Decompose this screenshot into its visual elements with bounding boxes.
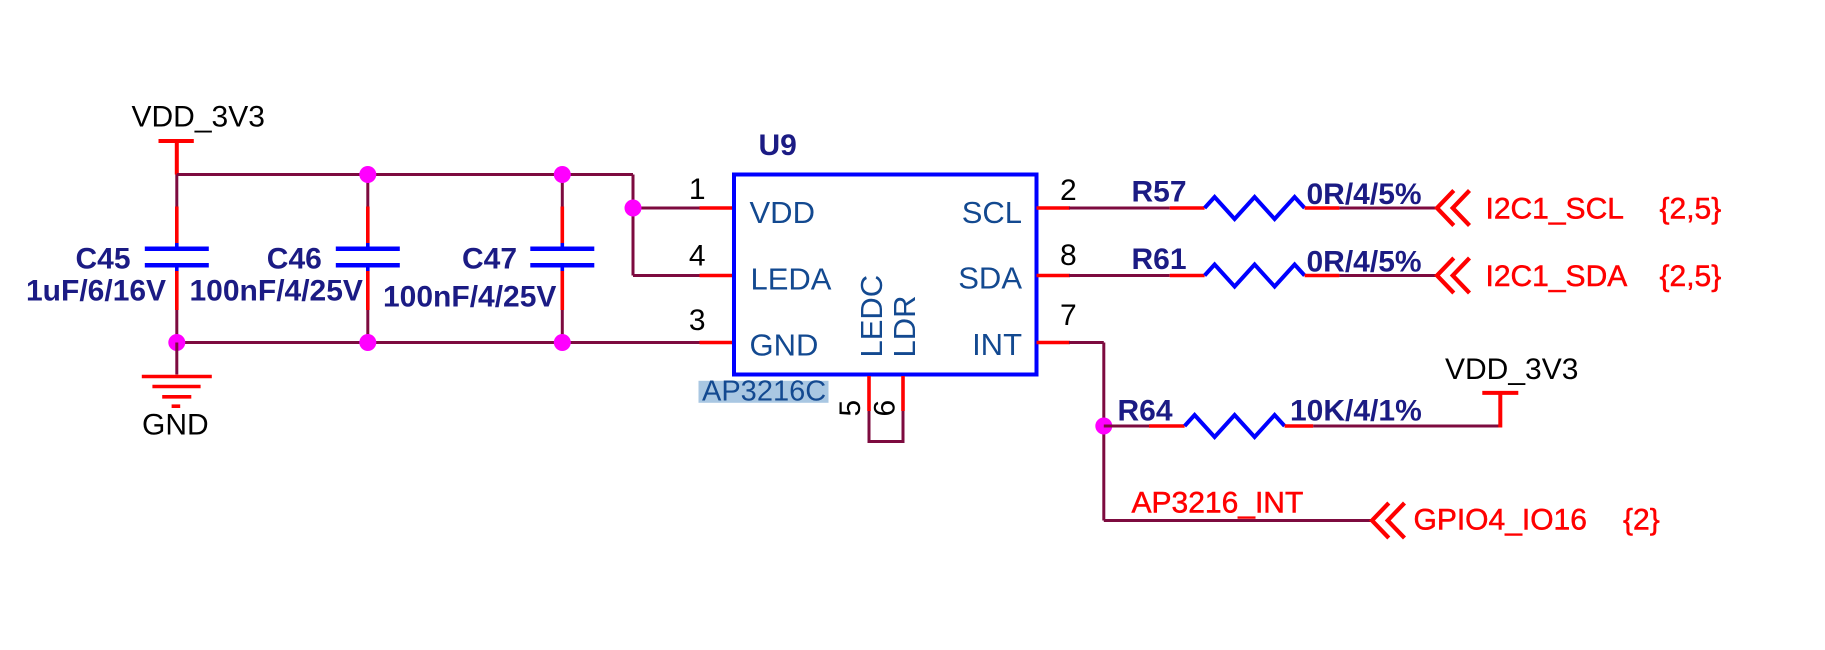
capacitor C47 [530, 175, 594, 343]
svg-text:{2,5}: {2,5} [1660, 260, 1722, 293]
wire: vertical at x=633 to LEDA row [632, 175, 635, 276]
svg-text:VDD_3V3: VDD_3V3 [1445, 353, 1578, 386]
svg-text:R61: R61 [1132, 243, 1187, 276]
svg-text:4: 4 [689, 240, 706, 273]
node: bottom rail at C46 [359, 334, 376, 351]
AP3216C highlighted value label [699, 381, 829, 403]
svg-text:100nF/4/25V: 100nF/4/25V [190, 275, 363, 308]
svg-text:{2,5}: {2,5} [1660, 193, 1722, 226]
svg-text:6: 6 [869, 400, 902, 417]
svg-text:{2}: {2} [1623, 504, 1660, 537]
svg-text:2: 2 [1060, 174, 1077, 207]
wire: junction to R64 [1104, 425, 1149, 428]
svg-text:I2C1_SCL: I2C1_SCL [1486, 193, 1624, 226]
power flag VDD_3V3 (left) symbol [159, 141, 194, 175]
svg-text:0R/4/5%: 0R/4/5% [1307, 246, 1422, 279]
power flag VDD_3V3 (right) symbol [1482, 393, 1518, 428]
wire: branch to pin 4 [633, 274, 700, 277]
svg-text:SCL: SCL [962, 195, 1022, 230]
resistor R57 [1205, 197, 1305, 219]
capacitor C46 [336, 175, 400, 343]
svg-text:AP3216C: AP3216C [702, 376, 826, 408]
pin 1 stub [700, 206, 734, 210]
op chip U9 AP3216C body [734, 175, 1037, 375]
wire: pin2 to R57 [1069, 207, 1170, 210]
wire: U loop joining pins 5 and 6 [869, 411, 903, 442]
wire: INT bottom horizontal [1104, 519, 1372, 522]
svg-text:GND: GND [750, 328, 819, 363]
svg-text:LEDC: LEDC [854, 275, 889, 358]
pin 3 stub [700, 341, 734, 345]
svg-text:INT: INT [972, 327, 1022, 362]
R64 right lead [1285, 424, 1314, 428]
wire: pin7 to corner [1069, 341, 1104, 344]
node: INT / R64 junction [1095, 418, 1112, 435]
off-page connector I2C1_SDA [1437, 258, 1470, 293]
node: bottom rail at C45 [168, 334, 185, 351]
svg-text:5: 5 [834, 400, 867, 417]
svg-text:100nF/4/25V: 100nF/4/25V [383, 281, 556, 314]
svg-text:LEDA: LEDA [751, 262, 832, 297]
svg-text:R57: R57 [1132, 176, 1187, 209]
capacitor C45 [145, 175, 209, 343]
wire: pin8 to R61 [1069, 274, 1170, 277]
pin 7 stub [1037, 341, 1071, 345]
resistor R61 [1205, 265, 1305, 287]
svg-text:VDD_3V3: VDD_3V3 [132, 101, 265, 134]
svg-text:SDA: SDA [958, 261, 1022, 296]
svg-text:C47: C47 [462, 243, 517, 276]
wire: R57 to connector [1339, 207, 1437, 210]
node: bottom rail at C47 [554, 334, 571, 351]
pin 4 stub [700, 274, 734, 278]
svg-text:7: 7 [1060, 299, 1077, 332]
node: VDD branch at pin1 row [625, 200, 642, 217]
svg-text:10K/4/1%: 10K/4/1% [1290, 395, 1422, 428]
node: top rail at C47 [554, 166, 571, 183]
pin 8 stub [1037, 274, 1071, 278]
R57 left lead [1170, 206, 1205, 210]
R61 left lead [1170, 274, 1205, 278]
R61 right lead [1305, 274, 1340, 278]
wire: bottom GND rail [177, 341, 700, 344]
svg-text:3: 3 [689, 304, 706, 337]
svg-text:I2C1_SDA: I2C1_SDA [1486, 260, 1628, 293]
wire: R64 to VDD [1313, 425, 1500, 428]
svg-text:GND: GND [142, 409, 209, 442]
off-page connector I2C1_SCL [1437, 191, 1470, 226]
R64 left lead [1149, 424, 1185, 428]
svg-text:1uF/6/16V: 1uF/6/16V [26, 275, 166, 308]
wire: C45 to ground [175, 343, 178, 375]
wire: INT vertical [1102, 343, 1105, 521]
svg-text:AP3216_INT: AP3216_INT [1132, 487, 1304, 520]
pin 6 stub [901, 376, 905, 411]
pin 5 stub [867, 376, 871, 411]
R57 right lead [1305, 206, 1340, 210]
svg-text:C45: C45 [76, 243, 131, 276]
svg-text:1: 1 [689, 173, 706, 206]
pin 2 stub [1037, 206, 1071, 210]
svg-text:GPIO4_IO16: GPIO4_IO16 [1414, 504, 1587, 537]
wire: R61 to connector [1339, 274, 1437, 277]
svg-text:LDR: LDR [887, 295, 922, 357]
node: top rail at C46 [359, 166, 376, 183]
resistor R64 [1185, 415, 1285, 437]
ground symbol [142, 377, 212, 407]
wire: top rail VDD [177, 173, 633, 176]
svg-text:0R/4/5%: 0R/4/5% [1307, 178, 1422, 211]
svg-text:R64: R64 [1118, 395, 1173, 428]
wire: branch to pin 1 [633, 207, 700, 210]
off-page connector GPIO4_IO16 [1372, 503, 1405, 538]
svg-text:8: 8 [1060, 239, 1077, 272]
svg-text:C46: C46 [267, 243, 322, 276]
svg-text:U9: U9 [759, 129, 797, 162]
svg-text:VDD: VDD [750, 195, 815, 230]
